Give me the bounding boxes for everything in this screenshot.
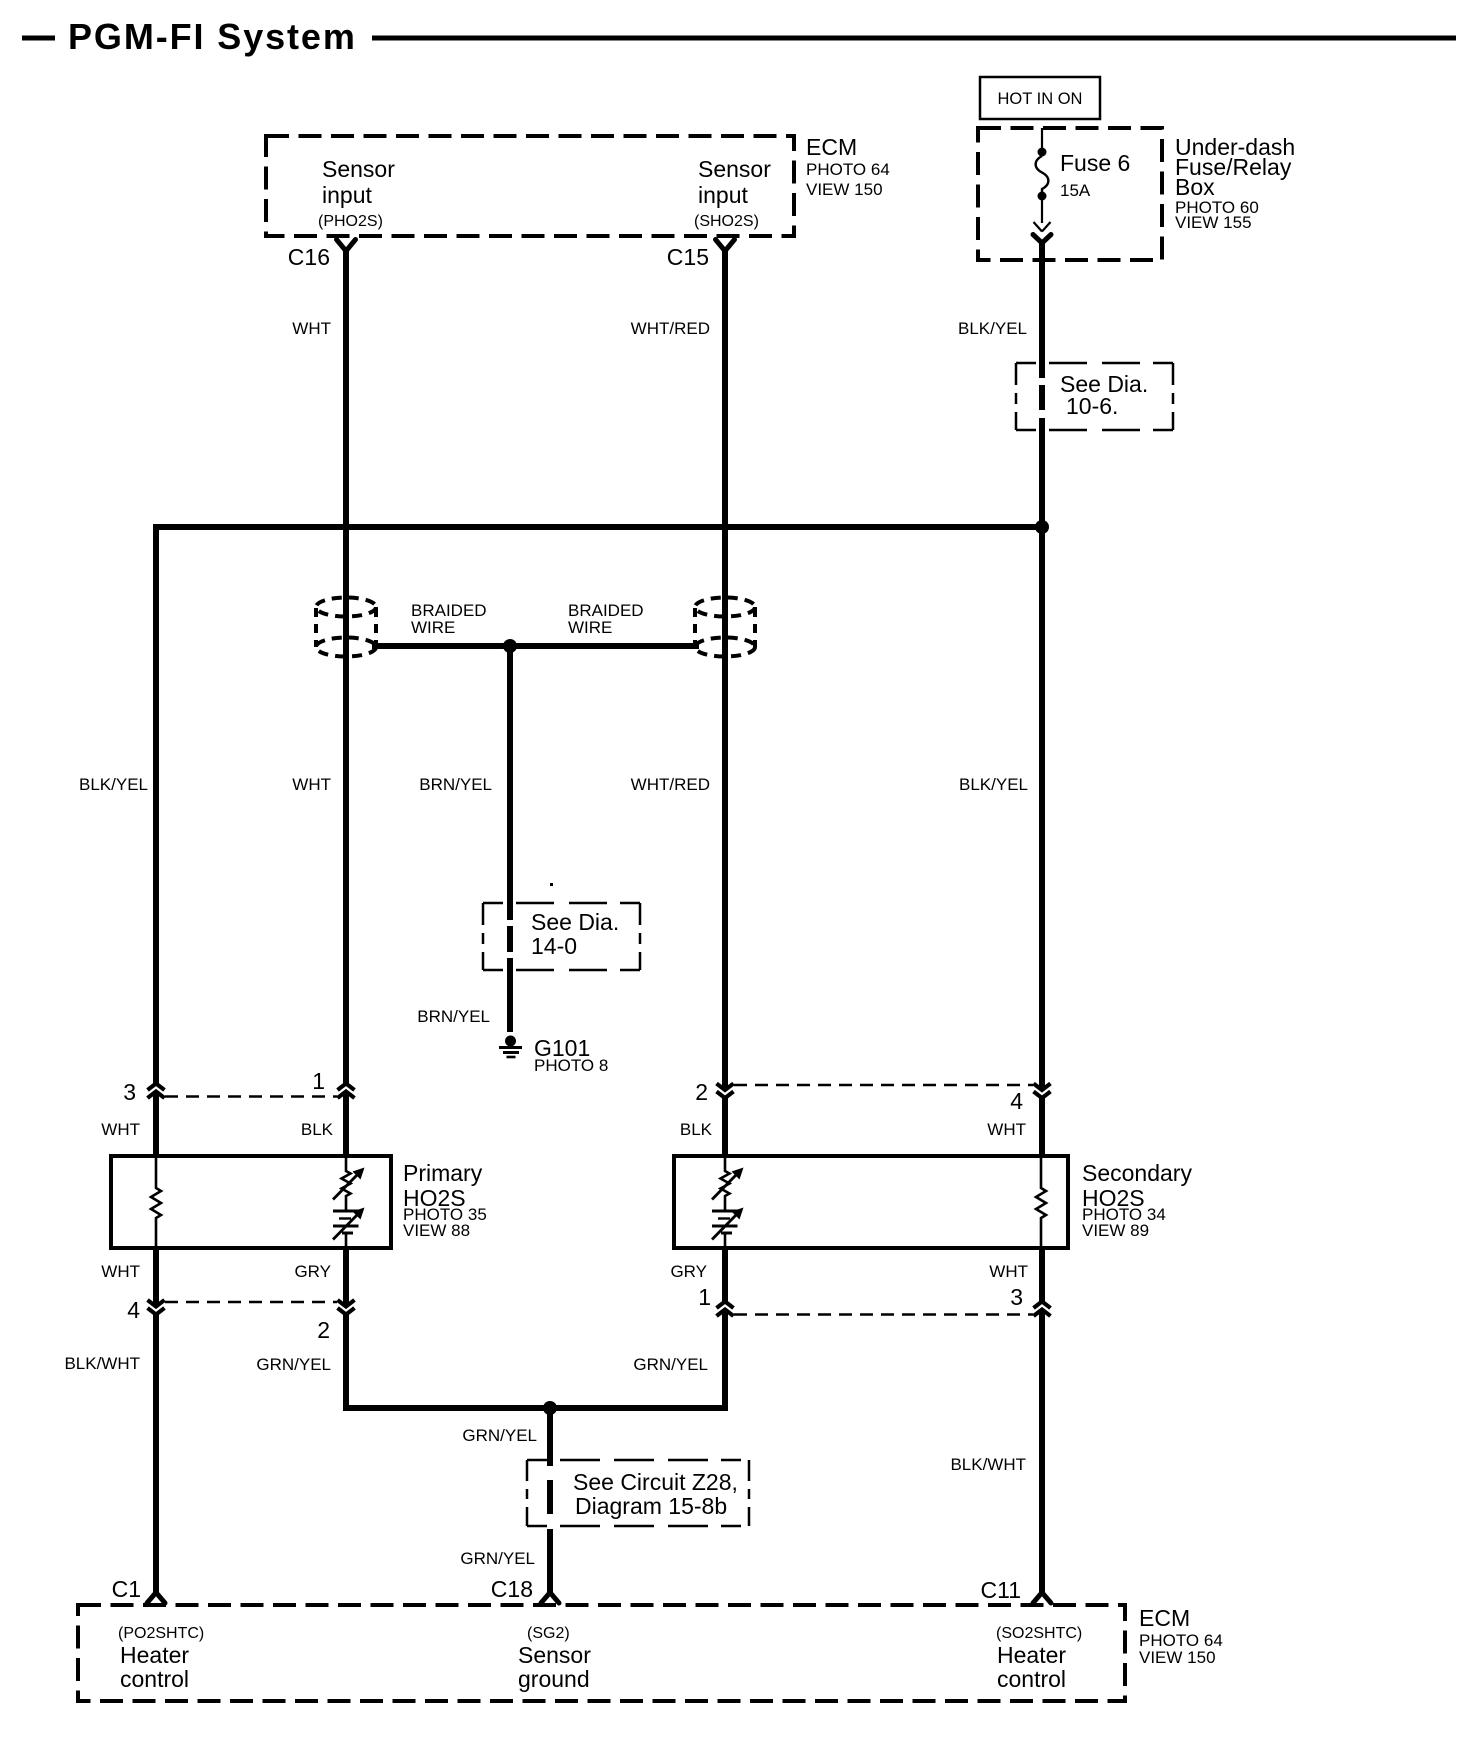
svg-text:WHT: WHT: [987, 1120, 1026, 1139]
svg-text:BLK/YEL: BLK/YEL: [79, 775, 148, 794]
svg-text:VIEW 89: VIEW 89: [1082, 1221, 1149, 1240]
svg-text:BLK/WHT: BLK/WHT: [64, 1354, 140, 1373]
scan speck: [550, 883, 553, 886]
dashed connector link pins 2-4: [734, 1084, 1033, 1086]
junction GRN/YEL: [543, 1401, 557, 1415]
svg-text:WHT/RED: WHT/RED: [631, 775, 710, 794]
svg-text:Heater: Heater: [120, 1642, 189, 1668]
svg-text:2: 2: [695, 1079, 708, 1105]
svg-text:WHT/RED: WHT/RED: [631, 319, 710, 338]
wire BLK/WHT from secondary pin 3 (x=1042): [1039, 1248, 1045, 1594]
svg-text:BLK/YEL: BLK/YEL: [958, 319, 1027, 338]
svg-text:PHOTO 8: PHOTO 8: [534, 1056, 608, 1075]
ground G101: [499, 1035, 608, 1075]
svg-text:WHT: WHT: [101, 1120, 140, 1139]
svg-text:Fuse 6: Fuse 6: [1060, 150, 1130, 176]
svg-text:GRN/YEL: GRN/YEL: [462, 1426, 537, 1445]
svg-text:C15: C15: [667, 244, 709, 270]
variable sensing element (primary): [333, 1158, 365, 1246]
svg-text:Sensor: Sensor: [698, 156, 771, 182]
wire GRN/YEL from primary pin 2 (x=346): [343, 1248, 349, 1408]
svg-text:See Circuit Z28,: See Circuit Z28,: [573, 1469, 738, 1495]
svg-text:10-6.: 10-6.: [1066, 393, 1118, 419]
svg-text:Primary: Primary: [403, 1160, 483, 1186]
svg-text:Sensor: Sensor: [322, 156, 395, 182]
HOT IN ON power tag: [980, 77, 1100, 119]
svg-text:WHT: WHT: [101, 1262, 140, 1281]
svg-text:BRN/YEL: BRN/YEL: [419, 775, 492, 794]
connector C18: [491, 1576, 559, 1603]
reference box See Dia. 10-6.: [1016, 363, 1173, 430]
svg-text:BLK/WHT: BLK/WHT: [950, 1455, 1026, 1474]
junction at shield link: [503, 639, 517, 653]
svg-text:GRN/YEL: GRN/YEL: [460, 1549, 535, 1568]
svg-text:(PO2SHTC): (PO2SHTC): [118, 1625, 204, 1642]
svg-text:14-0: 14-0: [531, 933, 577, 959]
svg-text:BLK: BLK: [680, 1120, 713, 1139]
svg-text:(SG2): (SG2): [527, 1625, 570, 1642]
svg-text:C1: C1: [112, 1576, 141, 1602]
svg-text:C11: C11: [981, 1577, 1022, 1603]
svg-text:WHT: WHT: [292, 319, 331, 338]
svg-text:GRY: GRY: [670, 1262, 707, 1281]
connector pin 2 (primary, bottom): [317, 1300, 354, 1343]
connector C16 (ECM pin): [288, 240, 356, 271]
svg-text:VIEW 155: VIEW 155: [1175, 213, 1252, 232]
braided wire shield (left): [316, 598, 487, 657]
connector pin 3 (primary HO2S, heater +): [123, 1079, 164, 1105]
svg-text:WIRE: WIRE: [411, 618, 455, 637]
reference box See Circuit Z28: [527, 1460, 749, 1526]
svg-text:4: 4: [127, 1297, 140, 1323]
svg-text:Diagram 15-8b: Diagram 15-8b: [575, 1493, 727, 1519]
connector pin 2 (secondary HO2S, signal): [695, 1079, 733, 1105]
wire WHT from C16 (x=346): [343, 249, 349, 1156]
wire below primary heater (x=156): [153, 1248, 159, 1594]
connector pin 1 (secondary, bottom): [698, 1284, 733, 1316]
wire shield link to ground: [372, 643, 699, 649]
svg-text:ECM: ECM: [806, 134, 857, 160]
svg-text:control: control: [120, 1666, 189, 1692]
dashed connector link pins 3-1: [165, 1095, 337, 1097]
connector pin 1 (primary HO2S, signal): [312, 1068, 354, 1098]
svg-text:See Dia.: See Dia.: [531, 909, 619, 935]
svg-text:GRN/YEL: GRN/YEL: [633, 1355, 708, 1374]
svg-text:VIEW 88: VIEW 88: [403, 1221, 470, 1240]
connector pin 4 (primary, bottom): [127, 1297, 164, 1323]
reference box See Dia. 14-0: [483, 903, 640, 970]
svg-text:PHOTO 64: PHOTO 64: [806, 160, 890, 179]
connector pin 4 (secondary HO2S, heater +): [1010, 1084, 1050, 1115]
svg-text:GRN/YEL: GRN/YEL: [256, 1355, 331, 1374]
connector at fuse box output: [1033, 222, 1051, 243]
svg-text:15A: 15A: [1060, 181, 1091, 200]
svg-text:WIRE: WIRE: [568, 618, 612, 637]
connector C1: [112, 1576, 165, 1603]
svg-text:2: 2: [317, 1317, 330, 1343]
svg-text:input: input: [698, 182, 748, 208]
wire BRN/YEL down to ground (x=510), dashed through See Dia 14-0: [507, 646, 513, 1032]
svg-text:BLK: BLK: [301, 1120, 334, 1139]
svg-text:(PHO2S): (PHO2S): [318, 213, 383, 230]
svg-text:PGM-FI System: PGM-FI System: [68, 16, 357, 57]
svg-text:(SHO2S): (SHO2S): [694, 213, 759, 230]
svg-text:C18: C18: [491, 1576, 533, 1602]
dashed connector link pins 4-2: [165, 1301, 337, 1303]
under-dash fuse/relay box: [978, 128, 1295, 260]
svg-text:ECM: ECM: [1139, 1605, 1190, 1631]
wire GRN/YEL from secondary pin 1 (x=725): [722, 1248, 728, 1408]
secondary HO2S box: [674, 1156, 1192, 1248]
resistor (secondary heater element): [1036, 1158, 1046, 1246]
wire WHT/RED from C15 (x=725): [722, 249, 728, 1156]
wire GRN/YEL down to C18 (x=550), dashed through Z28 box: [547, 1408, 553, 1594]
svg-text:HOT IN ON: HOT IN ON: [998, 90, 1083, 108]
title PGM-FI System: [22, 16, 1456, 57]
connector C11: [981, 1577, 1052, 1603]
svg-text:1: 1: [312, 1068, 325, 1094]
svg-text:3: 3: [1010, 1284, 1023, 1310]
connector pin 3 (secondary, bottom): [1010, 1284, 1050, 1316]
variable sensing element (secondary): [712, 1158, 744, 1246]
svg-text:GRY: GRY: [294, 1262, 331, 1281]
svg-text:C16: C16: [288, 244, 330, 270]
ECM U1 (bottom, heater control): [78, 1605, 1223, 1701]
svg-text:input: input: [322, 182, 372, 208]
wire horizontal bus BLK/YEL: [153, 524, 1045, 530]
wire GRN/YEL merge horizontal: [343, 1405, 728, 1411]
resistor (primary heater element): [151, 1158, 161, 1246]
braided wire shield (right): [568, 598, 755, 657]
svg-text:(SO2SHTC): (SO2SHTC): [996, 1625, 1082, 1642]
svg-text:ground: ground: [518, 1666, 590, 1692]
fuse F6 15A: [1036, 128, 1131, 223]
junction at fuse wire and bus: [1035, 520, 1049, 534]
svg-text:BLK/YEL: BLK/YEL: [959, 775, 1028, 794]
wire BLK/YEL from fuse to junction and pin 4 (x=1042), dashed through See Dia 10-6: [1039, 241, 1045, 1156]
primary HO2S box: [111, 1156, 487, 1248]
svg-text:VIEW 150: VIEW 150: [1139, 1648, 1216, 1667]
svg-text:WHT: WHT: [989, 1262, 1028, 1281]
svg-text:Heater: Heater: [997, 1642, 1066, 1668]
svg-text:Box: Box: [1175, 174, 1215, 200]
ECM U1 (top, sensor inputs): [266, 134, 890, 236]
svg-text:WHT: WHT: [292, 775, 331, 794]
svg-text:Sensor: Sensor: [518, 1642, 591, 1668]
svg-text:4: 4: [1010, 1088, 1023, 1114]
svg-text:BRN/YEL: BRN/YEL: [417, 1007, 490, 1026]
svg-text:3: 3: [123, 1079, 136, 1105]
connector C15 (ECM pin): [667, 240, 735, 271]
svg-text:control: control: [997, 1666, 1066, 1692]
svg-text:1: 1: [698, 1284, 711, 1310]
svg-text:Secondary: Secondary: [1082, 1160, 1192, 1186]
dashed connector link pins 1-3: [734, 1313, 1033, 1315]
svg-text:VIEW 150: VIEW 150: [806, 180, 883, 199]
wire left bus BLK/YEL down (x=156): [153, 524, 159, 1156]
